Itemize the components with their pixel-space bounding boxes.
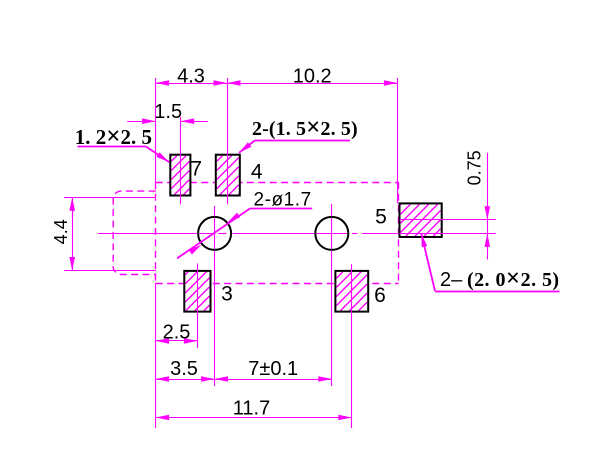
svg-text:3.5: 3.5 <box>170 358 198 380</box>
leader/label 1.2×2.5 for pad 7 <box>75 123 169 162</box>
svg-text:7: 7 <box>190 157 202 180</box>
pad7 center line <box>180 117 182 204</box>
svg-text:10.2: 10.2 <box>293 65 332 87</box>
component body outline (dashed) <box>156 182 399 283</box>
dim 3.5 and 7±0.1 <box>156 376 332 382</box>
leader/label 2-(1.5×2.5) for pads 4 and 3 <box>239 114 358 153</box>
pad 5 (2.0x2.5) <box>400 203 442 237</box>
svg-text:1.5: 1.5 <box>154 101 182 123</box>
dim 1.5 <box>127 118 208 124</box>
leader/label 2-ø1.7 for holes <box>177 190 312 259</box>
svg-text:4.4: 4.4 <box>51 219 71 244</box>
left hole vertical center line <box>214 206 216 386</box>
svg-text:(2. 0×2. 5): (2. 0×2. 5) <box>467 265 560 292</box>
hole right (d1.7) <box>315 217 348 250</box>
dim 0.75 <box>420 153 496 260</box>
pad4 center extension line <box>227 78 229 204</box>
dim 4.3/10.2 lines <box>156 78 398 203</box>
svg-text:4.3: 4.3 <box>177 65 205 87</box>
hole center line extension through pad5 <box>400 233 496 235</box>
svg-text:2-ø1.7: 2-ø1.7 <box>254 190 312 211</box>
body left protrusion outline (dashed rounded) <box>113 191 156 274</box>
dim 2.5 <box>156 338 198 344</box>
dim 11.7 <box>156 283 352 428</box>
svg-text:4: 4 <box>251 161 263 184</box>
leader/label 2-(2.0×2.5) for pads 5 and 6 <box>421 234 559 292</box>
svg-text:2–: 2– <box>440 269 463 291</box>
svg-text:0.75: 0.75 <box>464 150 484 185</box>
right hole vertical center line <box>331 204 333 386</box>
pad 4 (1.5x2.5) <box>216 155 240 196</box>
pad 7 (1.2x2.5) <box>170 155 190 196</box>
pad3 center line <box>197 263 199 347</box>
pad5 horizontal center line <box>400 219 496 221</box>
pad 3 (1.5x2.5) <box>184 271 210 312</box>
horizontal center line through holes <box>98 233 216 235</box>
svg-text:2-(1. 5×2. 5): 2-(1. 5×2. 5) <box>252 114 358 141</box>
pad 6 (2.0x2.5) <box>335 271 368 312</box>
svg-text:2.5: 2.5 <box>163 321 191 343</box>
svg-text:3: 3 <box>221 282 233 305</box>
svg-text:5: 5 <box>375 205 387 228</box>
svg-text:7±0.1: 7±0.1 <box>248 358 298 380</box>
pad6 center / 11.7 extension line <box>351 264 353 428</box>
hole left (d1.7) <box>198 217 231 250</box>
svg-text:6: 6 <box>374 284 386 307</box>
dim 4.4 <box>64 197 156 270</box>
svg-text:11.7: 11.7 <box>233 397 270 419</box>
